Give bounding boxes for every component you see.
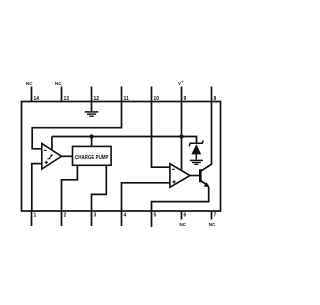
svg-text:12: 12 [94,96,100,102]
svg-text:+: + [182,80,184,84]
svg-text:3: 3 [94,213,97,219]
svg-text:2: 2 [64,213,67,219]
svg-text:NC: NC [209,222,216,227]
svg-text:CHARGE PUMP: CHARGE PUMP [75,155,109,161]
svg-text:NC: NC [26,81,33,86]
svg-text:7: 7 [214,213,217,219]
svg-text:13: 13 [64,96,70,102]
svg-text:NC: NC [179,222,186,227]
svg-text:14: 14 [34,96,40,102]
svg-text:8: 8 [214,96,217,102]
svg-text:11: 11 [124,96,130,102]
svg-text:9: 9 [184,96,187,102]
svg-text:5: 5 [154,213,157,219]
svg-text:4: 4 [124,213,127,219]
svg-text:NC: NC [55,81,62,86]
svg-text:6: 6 [184,213,187,219]
svg-text:10: 10 [154,96,160,102]
svg-text:1: 1 [34,213,37,219]
